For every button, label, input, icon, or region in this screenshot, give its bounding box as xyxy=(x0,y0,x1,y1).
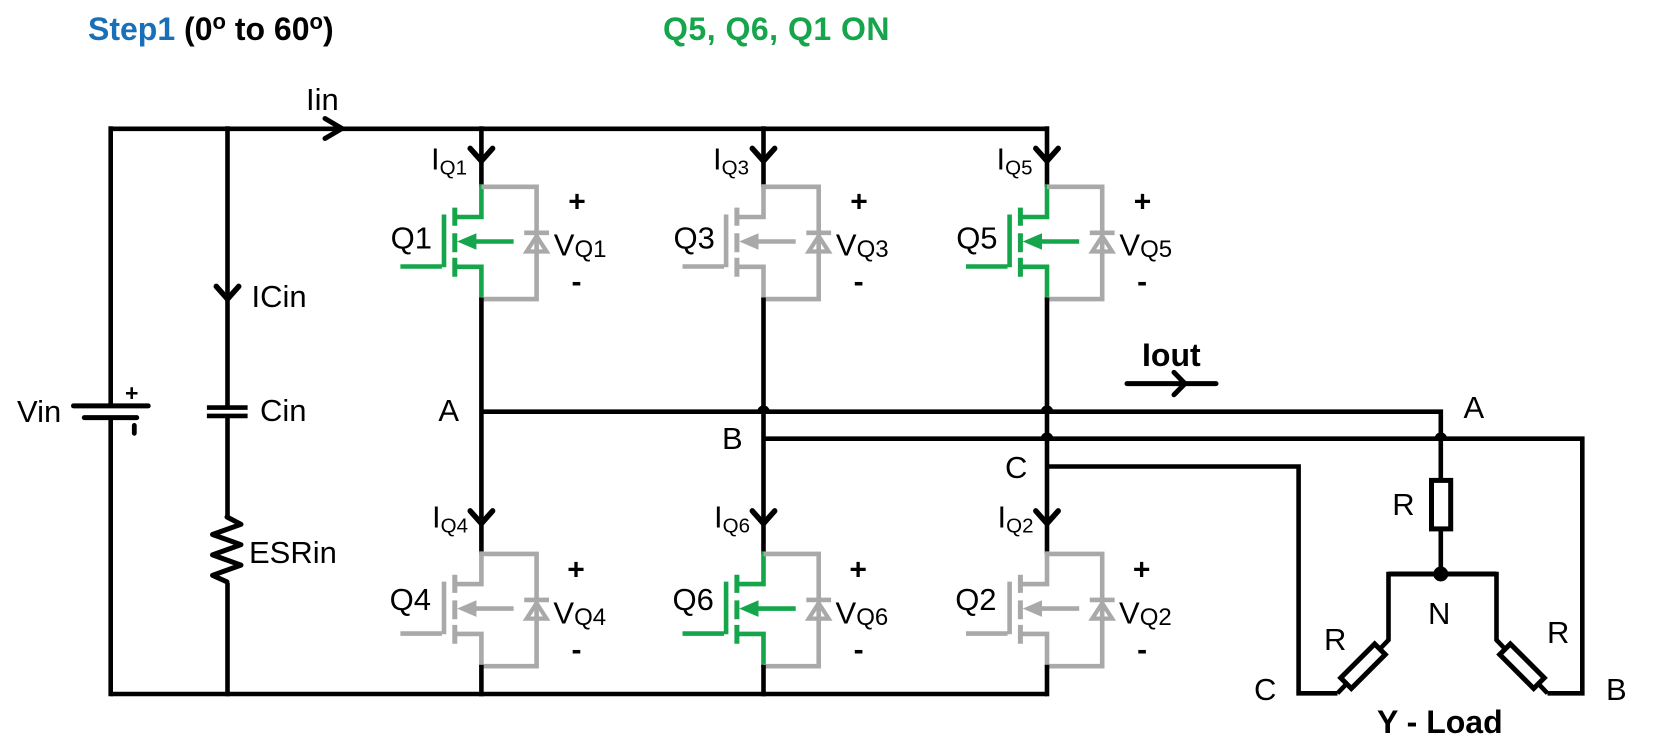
arrow IQ5 xyxy=(1036,148,1058,161)
svg-text:Q4: Q4 xyxy=(390,582,431,617)
hop B over wire A vertical xyxy=(1435,432,1448,438)
arrow IQ2 xyxy=(1036,511,1058,524)
svg-text:-: - xyxy=(854,634,864,667)
wire phase C xyxy=(1047,467,1338,694)
wire top bus xyxy=(111,127,1047,132)
svg-text:Q2: Q2 xyxy=(955,582,996,617)
resistor R phase C xyxy=(1341,644,1386,689)
svg-text:-: - xyxy=(572,266,582,299)
svg-text:Q3: Q3 xyxy=(674,221,715,256)
svg-text:Q5: Q5 xyxy=(956,221,997,256)
svg-text:A: A xyxy=(438,393,459,428)
leg 2 lower wire xyxy=(761,665,766,697)
arrow ICin xyxy=(216,286,238,299)
svg-text:Q5, Q6, Q1 ON: Q5, Q6, Q1 ON xyxy=(663,11,890,47)
wire phase A xyxy=(481,412,1440,481)
diode D3 xyxy=(764,185,832,302)
svg-text:ICin: ICin xyxy=(252,279,307,314)
svg-text:-: - xyxy=(1137,266,1147,299)
transistor Q1 (ON) xyxy=(400,184,513,300)
hop A over leg2 xyxy=(757,405,770,411)
wire neutral bar xyxy=(1389,572,1497,577)
hop B over leg3 xyxy=(1041,432,1054,438)
leg 2 upper wire xyxy=(761,126,766,187)
diode D2 xyxy=(1047,552,1115,669)
svg-text:A: A xyxy=(1464,390,1485,425)
svg-text:Step1 (0o to 60o): Step1 (0o to 60o) xyxy=(88,9,334,47)
svg-text:-: - xyxy=(854,266,864,299)
svg-text:Q1: Q1 xyxy=(391,221,432,256)
diode D1 xyxy=(481,185,549,302)
arrow IQ1 xyxy=(470,148,492,161)
svg-text:-: - xyxy=(1137,634,1147,667)
svg-text:-: - xyxy=(572,634,582,667)
svg-text:R: R xyxy=(1392,487,1414,522)
svg-text:+: + xyxy=(125,380,138,406)
svg-text:B: B xyxy=(1606,672,1627,707)
leg 1 upper wire xyxy=(479,126,484,187)
svg-text:R: R xyxy=(1324,622,1346,657)
resistor ESRin xyxy=(213,517,242,582)
transistor Q2 (OFF) xyxy=(966,551,1079,667)
diode D4 xyxy=(481,552,549,669)
svg-text:C: C xyxy=(1005,450,1027,485)
wire neutral to B leg xyxy=(1497,572,1548,694)
svg-text:+: + xyxy=(568,186,586,219)
diode D5 xyxy=(1047,185,1115,302)
diode D6 xyxy=(764,552,832,669)
svg-text:Y - Load: Y - Load xyxy=(1377,704,1503,740)
leg 1 middle wire xyxy=(479,298,484,555)
svg-text:+: + xyxy=(1134,186,1152,219)
transistor Q3 (OFF) xyxy=(683,184,796,300)
leg 3 upper wire xyxy=(1045,126,1050,187)
leg 3 lower wire xyxy=(1045,665,1050,697)
arrow IQ6 xyxy=(752,511,774,524)
capacitor Cin xyxy=(207,408,248,416)
svg-text:Iin: Iin xyxy=(306,82,339,117)
wire Cin branch vertical xyxy=(225,126,230,696)
svg-text:ESRin: ESRin xyxy=(249,535,337,570)
svg-text:C: C xyxy=(1254,672,1276,707)
svg-text:Q6: Q6 xyxy=(673,582,714,617)
arrow IQ4 xyxy=(470,511,492,524)
resistor R phase A xyxy=(1432,480,1451,529)
arrow Iout xyxy=(1127,372,1216,394)
wire left vertical Vin branch xyxy=(108,126,113,696)
resistor R phase B xyxy=(1500,644,1545,689)
svg-text:+: + xyxy=(849,553,867,586)
wire phase B xyxy=(764,439,1583,694)
hop A over leg3 xyxy=(1041,405,1054,411)
transistor Q4 (OFF) xyxy=(400,551,513,667)
arrow IQ3 xyxy=(752,148,774,161)
leg 2 middle wire xyxy=(761,298,766,555)
leg 3 middle wire xyxy=(1045,298,1050,555)
transistor Q6 (ON) xyxy=(683,551,796,667)
wire bottom bus xyxy=(111,692,1047,697)
svg-text:Vin: Vin xyxy=(17,394,61,429)
svg-text:R: R xyxy=(1547,615,1569,650)
svg-text:B: B xyxy=(722,421,743,456)
wire R-A lower lead xyxy=(1439,529,1444,574)
wire neutral to C leg xyxy=(1338,572,1389,694)
svg-text:+: + xyxy=(850,186,868,219)
svg-text:Iout: Iout xyxy=(1142,337,1201,373)
battery Vin xyxy=(74,380,149,436)
node N junction dot xyxy=(1433,567,1448,582)
svg-text:+: + xyxy=(567,553,585,586)
leg 1 lower wire xyxy=(479,665,484,697)
svg-text:+: + xyxy=(1133,553,1151,586)
transistor Q5 (ON) xyxy=(966,184,1079,300)
svg-text:N: N xyxy=(1428,596,1450,631)
svg-text:Cin: Cin xyxy=(260,393,307,428)
arrow Iin xyxy=(325,119,342,139)
